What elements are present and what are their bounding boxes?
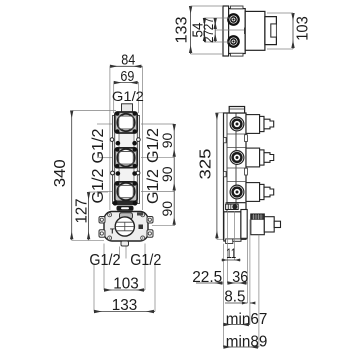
top view body xyxy=(229,9,246,54)
side body xyxy=(224,113,247,239)
svg-text:133: 133 xyxy=(173,16,190,43)
outlet 3 xyxy=(246,183,274,202)
svg-text:T: T xyxy=(110,227,115,236)
top cap xyxy=(229,107,244,114)
svg-text:G1/2: G1/2 xyxy=(112,88,144,104)
inner screws xyxy=(108,213,112,217)
svg-text:min89: min89 xyxy=(226,333,268,350)
small mid tab xyxy=(245,28,248,34)
dimension 84 xyxy=(110,66,142,210)
tie rod left xyxy=(113,116,115,204)
top view circle 2 xyxy=(228,36,238,46)
mixer body xyxy=(99,212,153,247)
outlet 1 xyxy=(246,115,274,134)
dimension 22.5 xyxy=(196,282,223,284)
svg-text:8.5: 8.5 xyxy=(224,288,245,305)
dimension 133 top xyxy=(191,6,223,54)
svg-text:127: 127 xyxy=(73,198,90,223)
dimension 325 xyxy=(217,113,229,240)
dimension 103 bottom xyxy=(104,289,145,291)
neck port1-2 xyxy=(119,133,134,149)
top view circle 1 xyxy=(228,14,238,24)
svg-text:69: 69 xyxy=(120,69,134,85)
dimension 127 xyxy=(89,192,108,240)
dimension 8.5 xyxy=(225,302,247,304)
svg-text:340: 340 xyxy=(52,159,69,187)
flange bolts P1-P2 xyxy=(110,138,140,146)
dimension 340 xyxy=(72,111,116,241)
dark connector xyxy=(117,206,134,211)
top view box xyxy=(245,11,265,50)
center circle xyxy=(115,217,134,236)
dimension 69 xyxy=(114,83,139,113)
svg-text:22.5: 22.5 xyxy=(192,269,222,286)
svg-text:G1/2: G1/2 xyxy=(145,169,162,204)
tie rod right xyxy=(137,116,139,204)
flange bolts P2-P3 xyxy=(111,171,140,176)
svg-text:103: 103 xyxy=(295,16,312,41)
right tabs xyxy=(245,135,248,142)
port P1 xyxy=(115,112,137,134)
dividers xyxy=(227,134,246,203)
svg-text:325: 325 xyxy=(197,148,214,179)
svg-text:G1/2: G1/2 xyxy=(145,128,162,163)
dimension 11 xyxy=(221,259,240,261)
top view cap xyxy=(265,17,277,45)
svg-text:103: 103 xyxy=(113,276,139,293)
dimension 27 27 xyxy=(215,18,244,42)
extension lines port levels xyxy=(97,124,174,226)
mixer side assembly xyxy=(224,203,281,244)
svg-text:G1/2: G1/2 xyxy=(90,128,107,163)
svg-text:G1/2: G1/2 xyxy=(89,252,120,269)
svg-text:36: 36 xyxy=(232,269,248,286)
port P3 xyxy=(115,182,137,202)
svg-text:G1/2: G1/2 xyxy=(90,168,107,203)
top view flange tabs xyxy=(231,6,244,9)
svg-text:27: 27 xyxy=(200,17,216,30)
dimension min89 xyxy=(223,346,259,348)
cartridge top xyxy=(120,213,133,219)
neck port2-3 xyxy=(119,168,134,182)
outlet 2 xyxy=(246,148,274,167)
dimension 90 x3 column xyxy=(173,124,175,226)
svg-text:11: 11 xyxy=(226,245,236,261)
dimension 133 bottom xyxy=(94,311,155,313)
svg-text:27: 27 xyxy=(200,30,216,43)
dimension 103 right xyxy=(267,13,293,49)
bottom extension lines xyxy=(94,244,155,312)
pipe stub top xyxy=(122,104,133,112)
svg-text:G1/2: G1/2 xyxy=(130,252,161,269)
dimension min67 xyxy=(223,324,250,326)
svg-text:84: 84 xyxy=(121,53,135,69)
svg-text:133: 133 xyxy=(112,297,138,314)
ears xyxy=(99,217,105,224)
bottom-right extension lines xyxy=(223,211,259,347)
top view plate xyxy=(223,6,229,56)
M mark xyxy=(139,225,144,230)
left notches xyxy=(224,138,227,143)
bottom tab xyxy=(121,241,129,246)
flange under P3 xyxy=(114,201,136,205)
port P2 xyxy=(115,148,137,168)
dimension 36 xyxy=(227,282,247,284)
side circles xyxy=(230,117,244,199)
svg-text:min67: min67 xyxy=(226,311,268,328)
dimension 54 xyxy=(205,18,233,42)
